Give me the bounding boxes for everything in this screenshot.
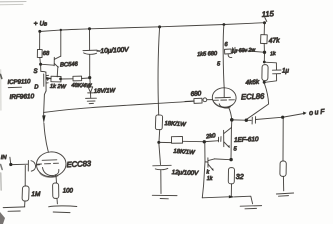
svg-text:680: 680 [190, 90, 202, 98]
svg-text:1μ 63v 2w: 1μ 63v 2w [231, 47, 256, 54]
wire node X down [263, 54, 265, 62]
wire rail end down [263, 23, 265, 35]
grid dashes ECL86 [213, 99, 218, 101]
node base node junction [203, 140, 206, 143]
svg-text:47k: 47k [268, 37, 280, 45]
svg-text:18K/1W: 18K/1W [173, 149, 196, 157]
node rail right end [263, 21, 266, 24]
capacitor C 1u63V plates [231, 48, 233, 54]
wire rail to R68 [39, 32, 41, 50]
svg-text:5: 5 [234, 147, 238, 153]
label underline [8, 86, 21, 88]
node divider junction [157, 141, 160, 144]
svg-text:ECC83: ECC83 [66, 159, 92, 169]
node X junction [263, 51, 266, 54]
node rail junction at tube [223, 23, 226, 26]
svg-text:IRF9610: IRF9610 [9, 93, 34, 101]
wire cathode to output cap [233, 119, 245, 121]
svg-text:32: 32 [236, 174, 244, 181]
ground bottom right [240, 205, 261, 208]
svg-text:k: k [207, 170, 210, 176]
resistor R 4k6 [262, 65, 268, 81]
ground load [276, 193, 293, 194]
capacitor C output [251, 117, 253, 124]
resistor R 100 [55, 177, 57, 183]
wire below R to divider node [158, 130, 161, 142]
wire collector to rail [60, 30, 62, 56]
resistor R 48K/4W [73, 76, 82, 81]
ground zener [90, 93, 92, 98]
resistor R 68 [37, 49, 42, 57]
tube ECC83 envelope [36, 151, 67, 178]
capacitor C input [27, 161, 29, 172]
node cathode junction [230, 118, 234, 122]
svg-text:1k5 680: 1k5 680 [197, 51, 218, 58]
svg-text:12μ/100V: 12μ/100V [172, 169, 200, 177]
svg-text:5: 5 [217, 62, 221, 68]
transistor Q2 1EF-60 [223, 130, 225, 146]
wire cathode vertical [230, 120, 233, 159]
ground cap [152, 194, 177, 196]
svg-text:D: D [34, 85, 38, 91]
wire mosfet drain down [44, 91, 46, 112]
diode zener 18V [89, 79, 91, 86]
svg-text:68: 68 [43, 51, 50, 57]
resistor small on branch [224, 49, 231, 54]
wire to cap node [82, 77, 89, 80]
ground 100 [49, 205, 77, 208]
node cap/zener junction [88, 76, 91, 79]
svg-text:1EF-610: 1EF-610 [234, 136, 259, 144]
wire drain curve to ECC83 anode [44, 123, 49, 152]
resistor R 32 [228, 168, 234, 184]
svg-text:115: 115 [261, 9, 274, 19]
resistor R load [282, 119, 284, 161]
svg-text:+: + [34, 20, 38, 27]
node drain junction arrow [43, 113, 45, 120]
transistor Q1 BC546 [53, 57, 55, 65]
node RC bottom junction [263, 81, 266, 84]
wire cathode down [54, 175, 57, 177]
paper rule lines top-left [0, 1, 26, 3]
wire anode from rail [223, 25, 224, 98]
wire node A to base [42, 63, 54, 66]
svg-text:1k 2W: 1k 2W [50, 84, 67, 91]
wire cathode to node [229, 108, 232, 120]
svg-text:ECL86: ECL86 [241, 92, 265, 102]
svg-text:1k: 1k [270, 51, 276, 57]
transistor Q3 lower [202, 144, 205, 198]
capacitor C 1u bypass [264, 62, 276, 69]
wire R32 to bottom [230, 184, 232, 197]
junction arrow on bottom wire [229, 195, 235, 198]
anode bar ECL86 [215, 96, 230, 99]
resistor R 18K/1W lower [171, 137, 182, 144]
transistor M1 mosfet [40, 65, 42, 71]
svg-text:~10μ/100V: ~10μ/100V [96, 47, 129, 56]
node rail junction at collector [60, 29, 62, 31]
node rail junction mid [158, 25, 161, 28]
node rail junction at cap [88, 27, 91, 30]
svg-text:ouF: ouF [309, 108, 327, 117]
wire between resistors [61, 78, 73, 80]
resistor R 680 grid stopper [185, 100, 194, 103]
node A junction [39, 63, 42, 66]
anode bar ECC83 [42, 159, 57, 162]
wire bottom emitter rail [202, 197, 228, 198]
svg-text:1μ: 1μ [282, 68, 289, 75]
wire RC network to cathode [247, 84, 269, 120]
wire to grid resistor [24, 166, 26, 187]
ground 1M [3, 206, 25, 209]
svg-text:1k: 1k [207, 176, 213, 182]
node 32 top junction [229, 158, 232, 161]
resistor R 47k [261, 35, 268, 44]
cathode arc ECL86 [219, 104, 230, 108]
svg-text:S: S [34, 69, 38, 75]
svg-text:UB: UB [40, 22, 47, 28]
resistor R 18K/1W upper [155, 115, 162, 130]
wire to out [256, 117, 282, 119]
tube ECL86 envelope [212, 87, 237, 108]
wire mid column from rail [158, 27, 160, 115]
terminal circle grid [203, 98, 207, 102]
node load junction [281, 116, 284, 119]
wire rail to cap C1 [89, 29, 91, 50]
svg-text:IN: IN [1, 155, 8, 161]
wire resistor to base node [183, 140, 204, 142]
svg-text:100: 100 [63, 189, 74, 195]
wire emitter down [56, 68, 59, 77]
grid dashes ECC83 [37, 163, 42, 165]
wire input to cap [12, 163, 27, 165]
input terminal [9, 157, 12, 163]
svg-text:18K/1W: 18K/1W [164, 121, 187, 128]
svg-text:1M: 1M [31, 191, 41, 198]
wire long diagonal to ECL86 grid [44, 101, 194, 112]
resistor R 1M [22, 186, 29, 201]
svg-text:ICP9110: ICP9110 [7, 79, 31, 86]
capacitor C 12u/100V [159, 144, 161, 165]
wire R68 to node A [39, 58, 42, 64]
node rail-left junction [38, 30, 41, 33]
wire base node to Q base [206, 140, 219, 143]
paper bottom-left corner blob [0, 212, 5, 224]
svg-text:4k6k: 4k6k [245, 79, 260, 87]
wire top supply rail [40, 23, 265, 32]
wire node to horizontal resistor [160, 141, 171, 143]
svg-text:6: 6 [225, 42, 229, 48]
wire cap to grid [37, 164, 39, 166]
svg-text:BC546: BC546 [60, 62, 79, 69]
wire Q3 collector to node [214, 158, 230, 161]
resistor R 1k 2W [51, 76, 61, 82]
svg-text:2k0: 2k0 [205, 133, 217, 140]
paper left edge smudges [0, 70, 2, 110]
node emitter/gate junction [59, 78, 62, 81]
wire mosfet gate row [46, 77, 51, 80]
cathode arc ECC83 [43, 168, 59, 176]
node output junction [245, 119, 248, 122]
wire branch to node X [235, 50, 263, 52]
svg-text:18V/1W: 18V/1W [94, 88, 117, 95]
capacitor C1 10u/100V [83, 49, 97, 52]
